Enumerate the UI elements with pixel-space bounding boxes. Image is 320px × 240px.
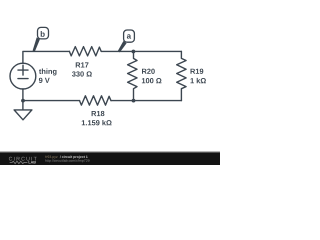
node flag b box bbox=[38, 27, 49, 39]
footer credit title bbox=[60, 155, 88, 158]
footer credit user bbox=[45, 155, 57, 158]
junction dot at ground node bbox=[21, 99, 25, 103]
node name b bbox=[41, 31, 45, 37]
footer black bar bbox=[0, 153, 220, 165]
label R19 bbox=[191, 69, 204, 74]
resistor R17 bbox=[69, 47, 101, 56]
label R18 bbox=[92, 111, 105, 116]
label 9 V bbox=[39, 78, 50, 83]
wire bottom left: junction to R18 bbox=[23, 100, 80, 102]
junction dot at bottom of R20 bbox=[132, 99, 136, 103]
label R17 bbox=[76, 62, 89, 67]
label R20 bbox=[142, 69, 155, 74]
logo text CIRCUIT bbox=[9, 157, 37, 161]
wire node a: R17 to R19 top corner bbox=[101, 50, 181, 52]
wire source bottom to ground junction bbox=[22, 89, 24, 101]
voltage source plus sign bbox=[18, 65, 28, 75]
logo text LAB bbox=[29, 161, 36, 164]
resistor R20 with leads bbox=[128, 52, 137, 101]
label 330 ohm bbox=[72, 71, 92, 76]
resistor R18 bbox=[80, 96, 112, 105]
voltage source V1 thing: circle bbox=[10, 63, 36, 89]
footer bar top fade bbox=[0, 151, 220, 153]
junction dot node a at top of R20 bbox=[132, 50, 136, 54]
resistor R19 with leads bbox=[177, 51, 186, 100]
label 1 kohm bbox=[191, 78, 206, 83]
label thing bbox=[39, 69, 57, 76]
ground symbol bbox=[14, 101, 32, 120]
footer url bbox=[45, 159, 89, 162]
node flag a box bbox=[124, 30, 135, 42]
wire node b: left corner down to source, across to R17 bbox=[23, 51, 70, 63]
logo resistor squiggle bbox=[10, 161, 28, 163]
node flag b pointer bbox=[33, 37, 40, 52]
wire bottom: R18 to R19 bottom corner bbox=[111, 100, 181, 102]
label 1.159 kohm bbox=[82, 120, 112, 125]
node name a bbox=[127, 34, 131, 38]
voltage source minus sign bbox=[18, 78, 28, 80]
label 100 ohm bbox=[142, 78, 162, 83]
node flag a pointer bbox=[118, 41, 127, 52]
